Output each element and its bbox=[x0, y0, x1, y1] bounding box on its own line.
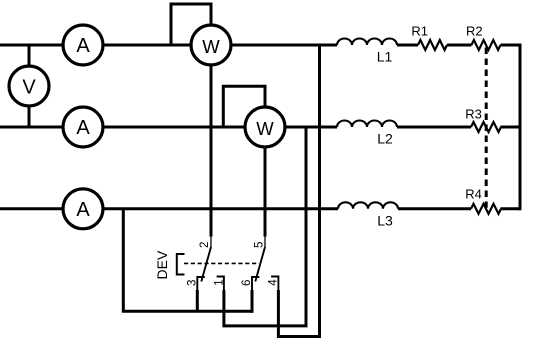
wire phase 2 line bbox=[0, 126, 520, 129]
svg-text:A: A bbox=[76, 35, 90, 57]
resistor R4 bbox=[471, 204, 501, 214]
switch DEV contact 5 pin bbox=[264, 235, 266, 247]
wattmeter W2 voltage-coil loop bbox=[223, 86, 265, 128]
svg-text:R4: R4 bbox=[465, 187, 482, 202]
switch DEV blade 5-6 bbox=[255, 247, 265, 282]
svg-text:L2: L2 bbox=[377, 131, 393, 147]
switch DEV actuator bracket bbox=[177, 254, 185, 275]
wire W2 current path down to contact 5 bbox=[264, 147, 267, 237]
svg-text:W: W bbox=[256, 118, 274, 139]
svg-text:DEV: DEV bbox=[154, 250, 170, 279]
svg-text:R1: R1 bbox=[411, 24, 428, 39]
svg-text:W: W bbox=[202, 36, 220, 57]
wire contact 6 to bus bbox=[251, 290, 254, 313]
wire voltmeter branch bbox=[28, 45, 31, 127]
wire right vertical bus bbox=[519, 44, 522, 211]
switch DEV contact 6 terminal bbox=[252, 277, 259, 291]
svg-text:5: 5 bbox=[253, 242, 266, 248]
wire contact 3 to bus bbox=[196, 290, 199, 311]
svg-text:2: 2 bbox=[198, 242, 211, 248]
mechanical coupling dashed link R2-R3-R4 bbox=[485, 48, 488, 208]
switch DEV contact 3 terminal bbox=[197, 277, 205, 291]
switch DEV contact 2 pin bbox=[210, 235, 212, 247]
switch DEV blade 2-3 bbox=[201, 247, 211, 282]
ammeter A phase 2 bbox=[63, 107, 103, 147]
wire W1 current path down to contact 2 bbox=[210, 65, 213, 237]
wattmeter W2 bbox=[245, 107, 285, 147]
svg-text:A: A bbox=[76, 199, 90, 221]
ammeter A phase 1 bbox=[63, 25, 103, 65]
svg-text:A: A bbox=[76, 117, 90, 139]
resistor R3 bbox=[471, 122, 501, 132]
inductor L3 bbox=[338, 202, 398, 209]
inductor L1 bbox=[337, 39, 397, 46]
wire phase 3 line bbox=[0, 207, 520, 210]
ammeter A phase 3 bbox=[63, 189, 103, 229]
svg-text:V: V bbox=[22, 77, 36, 99]
svg-text:1: 1 bbox=[212, 279, 225, 285]
svg-text:R2: R2 bbox=[466, 24, 483, 39]
svg-text:L1: L1 bbox=[377, 49, 393, 65]
svg-text:4: 4 bbox=[267, 279, 280, 286]
switch DEV contact 4 terminal bbox=[271, 277, 278, 292]
resistor R2 bbox=[472, 40, 501, 50]
wire phase 1 line bbox=[0, 44, 520, 47]
inductor L2 bbox=[337, 121, 397, 128]
wattmeter W1 bbox=[191, 25, 231, 65]
wattmeter W1 voltage-coil loop bbox=[171, 4, 211, 47]
voltmeter V bbox=[9, 66, 49, 106]
switch DEV actuator dashed link bbox=[184, 262, 259, 264]
svg-text:6: 6 bbox=[240, 280, 253, 286]
svg-text:3: 3 bbox=[185, 280, 198, 286]
wire phase 3 tap down to switch bus bbox=[123, 209, 252, 311]
svg-text:R3: R3 bbox=[465, 107, 482, 122]
resistor R1 bbox=[418, 40, 447, 50]
switch DEV contact 1 terminal bbox=[217, 277, 224, 292]
wire contact 4 to phase 1 bbox=[278, 45, 319, 337]
wire contact 1 to phase 2 bbox=[224, 127, 306, 326]
svg-text:L3: L3 bbox=[377, 212, 393, 228]
